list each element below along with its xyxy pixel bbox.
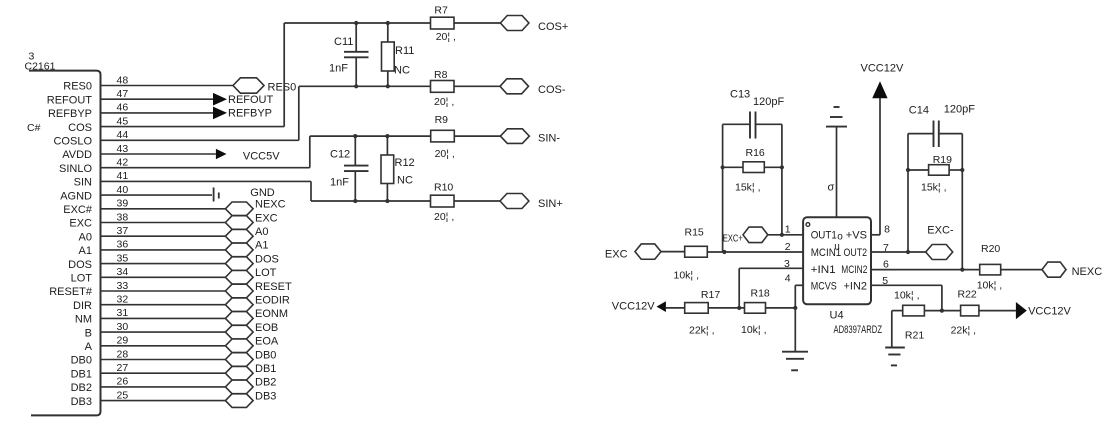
svg-text:10k¦ ,: 10k¦ , <box>674 270 700 282</box>
resistor R11 (NC) <box>387 23 389 42</box>
svg-text:R15: R15 <box>685 227 704 239</box>
resistor R17 <box>685 303 709 314</box>
wire U4 pin8 +VS to VCC12V <box>871 234 880 236</box>
capacitor C12 <box>354 136 356 165</box>
svg-text:R11: R11 <box>395 45 414 57</box>
svg-text:GND: GND <box>250 187 274 199</box>
junction MCVS/gnd <box>793 306 797 310</box>
svg-text:SIN-: SIN- <box>538 133 560 145</box>
svg-text:28: 28 <box>117 348 129 360</box>
wire R9 to SIN- <box>454 135 500 137</box>
net connector DB0 <box>225 353 253 367</box>
svg-text:R17: R17 <box>701 289 720 301</box>
port NEXC hexagon <box>1042 262 1066 277</box>
wire COS- net <box>299 85 431 87</box>
svg-text:20¦ ,: 20¦ , <box>436 31 456 43</box>
net connector EOA <box>225 339 253 353</box>
wire feedback2 right vertical to pin6 <box>961 134 963 270</box>
svg-text:RES0: RES0 <box>63 81 92 93</box>
svg-text:46: 46 <box>117 102 129 114</box>
svg-text:6: 6 <box>883 259 889 271</box>
svg-text:EODIR: EODIR <box>255 295 290 307</box>
svg-text:4: 4 <box>785 272 791 284</box>
svg-text:36: 36 <box>117 239 129 251</box>
svg-text:R18: R18 <box>751 288 770 300</box>
op-amp U4 AD8397ARDZ body <box>803 217 871 304</box>
U4 pin1 marker <box>806 223 810 227</box>
resistor R12 (NC) <box>386 136 388 155</box>
svg-text:SINLO: SINLO <box>59 163 92 175</box>
svg-text:15k¦ ,: 15k¦ , <box>921 182 947 194</box>
power arrow REFOUT <box>213 93 227 106</box>
svg-text:OUT2: OUT2 <box>844 247 868 259</box>
svg-text:EONM: EONM <box>255 308 288 320</box>
svg-text:34: 34 <box>117 266 129 278</box>
svg-text:26: 26 <box>117 376 129 388</box>
resistor R18 <box>745 303 766 314</box>
svg-text:EOA: EOA <box>255 336 279 348</box>
wire R15 to U4 pin2 <box>707 251 803 253</box>
svg-text:20¦ ,: 20¦ , <box>435 148 455 160</box>
svg-text:31: 31 <box>117 307 129 319</box>
svg-text:1nF: 1nF <box>329 63 348 75</box>
svg-text:A0: A0 <box>255 226 268 238</box>
port SIN- <box>500 129 529 144</box>
IC U3 body (left edge clipped) <box>29 71 101 416</box>
wire R18 to gnd line <box>766 307 796 309</box>
svg-text:COS: COS <box>68 122 92 134</box>
net connector A1 <box>225 243 253 257</box>
svg-text:EXC: EXC <box>69 218 92 230</box>
svg-text:120pF: 120pF <box>944 104 975 116</box>
net connector A0 <box>225 229 253 243</box>
net connector LOT <box>225 271 253 285</box>
wire EXC+ to U4 pin1 <box>768 234 803 236</box>
svg-text:20¦ ,: 20¦ , <box>434 96 454 108</box>
svg-text:MCIN2: MCIN2 <box>841 264 867 276</box>
svg-text:45: 45 <box>117 115 129 127</box>
wire R8 to COS- <box>454 85 500 87</box>
resistor R22 <box>961 305 979 316</box>
port EXC- hexagon <box>926 245 953 260</box>
svg-text:REFBYP: REFBYP <box>48 108 92 120</box>
port SIN+ <box>500 194 529 209</box>
wire R22 to VCC12V <box>979 310 1016 312</box>
svg-text:MCVS: MCVS <box>811 281 837 293</box>
svg-text:+IN1: +IN1 <box>811 264 836 276</box>
svg-text:COS-: COS- <box>538 84 566 96</box>
svg-text:OUT1: OUT1 <box>811 229 837 241</box>
svg-text:RESET: RESET <box>255 281 292 293</box>
svg-text:COS+: COS+ <box>538 21 568 33</box>
resistor R21 <box>903 305 925 316</box>
svg-text:A0: A0 <box>79 231 92 243</box>
svg-text:R12: R12 <box>395 157 415 169</box>
svg-text:A1: A1 <box>79 245 92 257</box>
resistor R10 <box>431 195 455 207</box>
svg-text:RES0: RES0 <box>268 82 297 94</box>
inverted ground bars <box>826 126 847 128</box>
svg-text:20¦ ,: 20¦ , <box>434 211 454 223</box>
svg-text:DB0: DB0 <box>255 349 276 361</box>
svg-text:REFOUT: REFOUT <box>47 94 93 106</box>
wire SIN+ net <box>311 200 431 202</box>
svg-text:39: 39 <box>117 198 129 210</box>
resistor R7 <box>431 17 455 29</box>
svg-text:15k¦ ,: 15k¦ , <box>735 182 761 194</box>
svg-text:29: 29 <box>117 335 129 347</box>
svg-text:DB0: DB0 <box>71 355 92 367</box>
wire feedback left vertical <box>722 124 724 252</box>
wire riser pin41 SIN <box>310 181 312 201</box>
wire VCC12V to R17 <box>666 307 685 309</box>
svg-text:VCC12V: VCC12V <box>612 301 655 313</box>
svg-text:32: 32 <box>117 294 129 306</box>
wire U4 top to bar symbol <box>836 128 838 218</box>
svg-text:+VS: +VS <box>846 229 867 241</box>
svg-text:R16: R16 <box>746 147 765 159</box>
wire R17 to R18 <box>708 307 744 309</box>
svg-text:NM: NM <box>75 314 92 326</box>
svg-text:DOS: DOS <box>255 253 279 265</box>
resistor R16 <box>723 166 743 168</box>
capacitor C14 <box>908 133 934 135</box>
svg-text:R8: R8 <box>434 69 448 81</box>
wire pin3 to divider <box>739 267 803 269</box>
svg-text:38: 38 <box>117 211 129 223</box>
svg-text:40: 40 <box>117 184 129 196</box>
resistor R15 <box>685 246 708 257</box>
svg-text:C13: C13 <box>730 89 750 101</box>
net connector EOB <box>225 325 253 339</box>
power arrow VCC12V (up) <box>872 81 887 98</box>
svg-text:EOB: EOB <box>255 322 278 334</box>
svg-text:SIN: SIN <box>74 177 92 189</box>
svg-text:VCC12V: VCC12V <box>861 63 904 75</box>
capacitor C11 <box>355 23 357 51</box>
svg-text:VCC5V: VCC5V <box>243 151 280 163</box>
port EXC hexagon <box>635 244 661 259</box>
svg-text:DOS: DOS <box>68 259 92 271</box>
net connector EODIR <box>225 298 253 312</box>
power arrow VCC12V (right, pointing right) <box>1016 302 1027 319</box>
svg-text:C#: C# <box>27 122 41 134</box>
svg-text:A: A <box>85 341 93 353</box>
wire EXC to R15 <box>661 251 685 253</box>
svg-text:R9: R9 <box>435 114 449 126</box>
wire riser pin42 SINLO <box>309 136 311 168</box>
svg-text:10k¦ ,: 10k¦ , <box>977 280 1003 292</box>
svg-text:R10: R10 <box>434 182 453 194</box>
port EXC+ hexagon <box>743 227 768 243</box>
svg-text:LOT: LOT <box>255 267 277 279</box>
svg-text:DB1: DB1 <box>71 368 92 380</box>
svg-text:10k¦ ,: 10k¦ , <box>741 324 767 336</box>
svg-text:C14: C14 <box>909 105 929 117</box>
capacitor C13 <box>723 123 750 125</box>
svg-text:VCC12V: VCC12V <box>1028 306 1071 318</box>
wire feedback right vertical to pin1 <box>781 124 783 235</box>
ground symbol (AGND) <box>213 188 215 202</box>
svg-text:EXC: EXC <box>605 249 628 261</box>
wire riser pin45 COS <box>283 23 285 127</box>
svg-text:LOT: LOT <box>71 273 93 285</box>
svg-text:35: 35 <box>117 252 129 264</box>
port COS- <box>500 79 529 94</box>
svg-text:C11: C11 <box>334 36 353 48</box>
wire R21 to ground <box>892 310 903 312</box>
svg-text:σ: σ <box>828 182 835 194</box>
svg-text:REFBYP: REFBYP <box>228 108 272 120</box>
resistor R9 <box>431 130 455 142</box>
net connector EONM <box>225 312 253 326</box>
power arrow REFBYP <box>213 107 227 120</box>
svg-text:NC: NC <box>394 65 410 77</box>
svg-text:+IN2: +IN2 <box>844 281 868 293</box>
svg-text:120pF: 120pF <box>753 96 784 108</box>
resistor R19 <box>908 169 929 171</box>
net connector DOS <box>225 257 253 271</box>
svg-text:R19: R19 <box>933 154 952 166</box>
svg-text:DB2: DB2 <box>71 382 92 394</box>
svg-text:EXC-: EXC- <box>927 225 954 237</box>
svg-text:DB3: DB3 <box>71 396 92 408</box>
wire pin4 MCVS down to ground <box>795 284 803 286</box>
svg-text:B: B <box>85 327 92 339</box>
resistor R8 <box>431 81 455 93</box>
svg-text:SIN+: SIN+ <box>538 198 563 210</box>
svg-text:DB1: DB1 <box>255 363 276 375</box>
power arrow VCC5V <box>216 149 227 160</box>
svg-text:NEXC: NEXC <box>255 199 286 211</box>
ground symbol (right) <box>885 347 905 349</box>
svg-text:44: 44 <box>117 129 129 141</box>
svg-text:48: 48 <box>117 74 129 86</box>
svg-text:C12: C12 <box>330 149 350 161</box>
svg-text:C2161: C2161 <box>25 61 56 73</box>
ground symbol (left) <box>782 351 808 353</box>
svg-text:NC: NC <box>397 175 413 187</box>
svg-text:37: 37 <box>117 225 129 237</box>
svg-text:25: 25 <box>117 389 129 401</box>
svg-text:U4: U4 <box>830 310 844 322</box>
svg-text:AVDD: AVDD <box>62 149 92 161</box>
svg-text:EXC+: EXC+ <box>723 232 743 244</box>
svg-text:A1: A1 <box>255 240 268 252</box>
net connector DB3 <box>225 394 253 408</box>
svg-text:30: 30 <box>117 321 129 333</box>
net connector NEXC <box>225 202 253 216</box>
svg-text:u: u <box>834 241 840 252</box>
wire U4 pin6 to R20 <box>871 269 980 271</box>
svg-text:2: 2 <box>785 241 791 253</box>
svg-text:22k¦ ,: 22k¦ , <box>689 325 715 337</box>
svg-text:AD8397ARDZ: AD8397ARDZ <box>834 324 883 336</box>
svg-text:EXC#: EXC# <box>63 204 93 216</box>
svg-text:41: 41 <box>117 170 129 182</box>
port COS+ <box>500 16 529 31</box>
junction pin2 node <box>722 250 726 254</box>
wire R7 to COS+ <box>454 22 500 24</box>
svg-text:DB3: DB3 <box>255 390 276 402</box>
svg-text:RESET#: RESET# <box>49 286 93 298</box>
junction +IN1 bias <box>737 306 741 310</box>
wire COS+ net (top) <box>284 22 430 24</box>
svg-text:1: 1 <box>785 224 791 236</box>
svg-text:EXC: EXC <box>255 212 278 224</box>
svg-text:R7: R7 <box>434 5 448 17</box>
wire R21 to R22 <box>924 310 960 312</box>
wire feedback2 left vertical <box>907 134 909 252</box>
svg-text:R20: R20 <box>981 243 1000 255</box>
svg-text:8: 8 <box>884 224 890 236</box>
svg-text:R22: R22 <box>958 289 977 301</box>
svg-text:DB2: DB2 <box>255 377 276 389</box>
svg-text:COSLO: COSLO <box>53 136 92 148</box>
svg-text:DIR: DIR <box>73 300 92 312</box>
net connector RESET <box>225 284 253 298</box>
svg-text:22k¦ ,: 22k¦ , <box>951 325 977 337</box>
svg-text:R21: R21 <box>905 330 924 342</box>
wire U4 pin5 <box>871 284 942 286</box>
wire R10 to SIN+ <box>454 200 500 202</box>
net connector DB1 <box>225 366 253 380</box>
svg-text:REFOUT: REFOUT <box>228 94 274 106</box>
net connector DB2 <box>225 380 253 394</box>
wire R20 to NEXC <box>1001 269 1042 271</box>
svg-text:NEXC: NEXC <box>1072 266 1103 278</box>
resistor R20 <box>980 264 1001 275</box>
net connector RES0 <box>233 78 264 93</box>
svg-text:47: 47 <box>117 88 129 100</box>
svg-text:33: 33 <box>117 280 129 292</box>
net connector EXC <box>225 216 253 230</box>
wire U4 pin7 to EXC- <box>871 251 926 253</box>
svg-text:10k¦ ,: 10k¦ , <box>894 290 920 302</box>
svg-text:27: 27 <box>117 362 129 374</box>
wire SIN- net (top) <box>310 135 431 137</box>
svg-text:43: 43 <box>117 143 129 155</box>
svg-text:AGND: AGND <box>60 190 92 202</box>
svg-text:1nF: 1nF <box>330 177 349 189</box>
svg-text:42: 42 <box>117 157 129 169</box>
wire riser pin44 COSLO <box>298 86 300 140</box>
